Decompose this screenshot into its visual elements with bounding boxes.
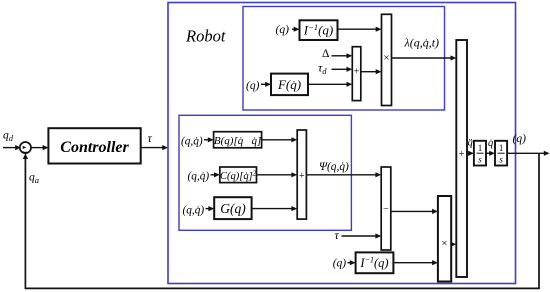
wire: G to sum	[252, 208, 293, 210]
wire: (q) to I1 bottom	[348, 262, 351, 264]
svg-text:1: 1	[478, 143, 483, 153]
wire: tau_d to sum	[332, 68, 348, 70]
block integrator 1/s second	[495, 141, 507, 166]
svg-text:τ: τ	[335, 228, 340, 242]
svg-text:Robot: Robot	[185, 27, 226, 46]
wire: q_d input arrow	[3, 147, 16, 149]
wire: minus to multiplier	[391, 210, 433, 212]
wire: feedback rise left to summing junction	[24, 157, 26, 288]
box: middle inner subsystem (blue)	[179, 115, 351, 230]
wire: I1 to multiplier	[338, 28, 377, 30]
box: top inner subsystem (blue)	[243, 7, 445, 111]
wire to G block	[206, 208, 210, 210]
block C(q)[qd]^2	[220, 167, 257, 183]
wire: F to sum	[308, 83, 348, 85]
svg-text:(q,q̇): (q,q̇)	[188, 171, 210, 183]
svg-text:Δ: Δ	[322, 48, 329, 60]
svg-text:−: −	[383, 204, 389, 215]
wire: feedback drop right	[538, 153, 540, 288]
wire: B to sum	[262, 139, 293, 141]
block G(q)	[214, 197, 251, 219]
block B(q)[qd qd]	[214, 132, 262, 148]
wire: lambda to big sum	[392, 57, 452, 59]
svg-text:λ(q,q̇,t): λ(q,q̇,t)	[404, 36, 440, 50]
wire: (q) to F block	[261, 83, 266, 85]
multiplier block (top box)	[382, 14, 392, 105]
svg-text:I−1(q): I−1(q)	[359, 255, 388, 270]
svg-text:(q): (q)	[333, 257, 347, 269]
svg-text:(q): (q)	[513, 133, 527, 145]
big sum block (tall)	[456, 40, 467, 277]
svg-text:(q): (q)	[276, 24, 290, 36]
wire: feedback bottom	[25, 287, 540, 289]
svg-text:+: +	[459, 149, 465, 160]
wire: tau to minus block	[342, 235, 377, 237]
block Controller	[48, 128, 140, 163]
wire: I1 bottom to multiplier	[393, 262, 433, 264]
svg-text:C(q)[q̇]2: C(q)[q̇]2	[220, 170, 257, 183]
svg-text:+: +	[299, 171, 305, 182]
wire: output line	[507, 152, 544, 154]
block integrator 1/s first	[474, 141, 486, 166]
svg-text:×: ×	[383, 52, 389, 64]
wire: big sum to integrator 1	[467, 152, 469, 154]
wire: Controller to Robot box	[141, 147, 163, 149]
svg-text:q̇: q̇	[488, 138, 493, 149]
svg-text:F(q̇): F(q̇)	[277, 77, 301, 92]
svg-text:Ψ(q,q̇): Ψ(q,q̇)	[319, 161, 349, 173]
svg-text:s: s	[478, 155, 482, 165]
wire: Psi to minus block	[306, 174, 376, 176]
svg-text:Controller: Controller	[60, 139, 129, 156]
minus block	[381, 167, 391, 250]
wire: integrator1 to integrator2	[486, 152, 490, 154]
svg-text:I−1(q): I−1(q)	[303, 22, 334, 38]
block I^-1(q) bottom	[356, 252, 394, 273]
wire to B block	[204, 139, 209, 141]
svg-text:×: ×	[441, 238, 447, 250]
block I^-1(q) top	[300, 20, 338, 40]
box Robot (outer blue boundary)	[168, 3, 516, 284]
sum block (top box)	[352, 47, 361, 101]
wire: Delta to sum	[332, 55, 348, 57]
wire: C to sum	[257, 174, 293, 176]
wire: sum to multiplier	[361, 71, 377, 73]
svg-text:1: 1	[499, 143, 504, 153]
svg-text:s: s	[499, 155, 503, 165]
svg-text:(q,q̇): (q,q̇)	[181, 136, 203, 148]
summing junction	[20, 142, 31, 153]
svg-text:+: +	[354, 67, 360, 78]
sum block (middle box)	[297, 130, 306, 219]
block F(qdot)	[271, 74, 308, 96]
svg-text:G(q): G(q)	[220, 201, 246, 216]
wire: (q) to I1 block	[292, 28, 294, 30]
multiplier block (right)	[438, 196, 451, 282]
wire to C block	[211, 174, 215, 176]
svg-text:(q): (q)	[246, 80, 260, 92]
svg-text:B(q)[q̇ q̇]: B(q)[q̇ q̇]	[214, 135, 261, 147]
svg-text:τ: τ	[148, 131, 153, 145]
wire: sum to Controller	[31, 147, 44, 149]
svg-text:(q,q̇): (q,q̇)	[183, 205, 205, 217]
svg-text:q̈: q̈	[468, 138, 473, 149]
wire: multiplier to big sum	[450, 243, 452, 245]
